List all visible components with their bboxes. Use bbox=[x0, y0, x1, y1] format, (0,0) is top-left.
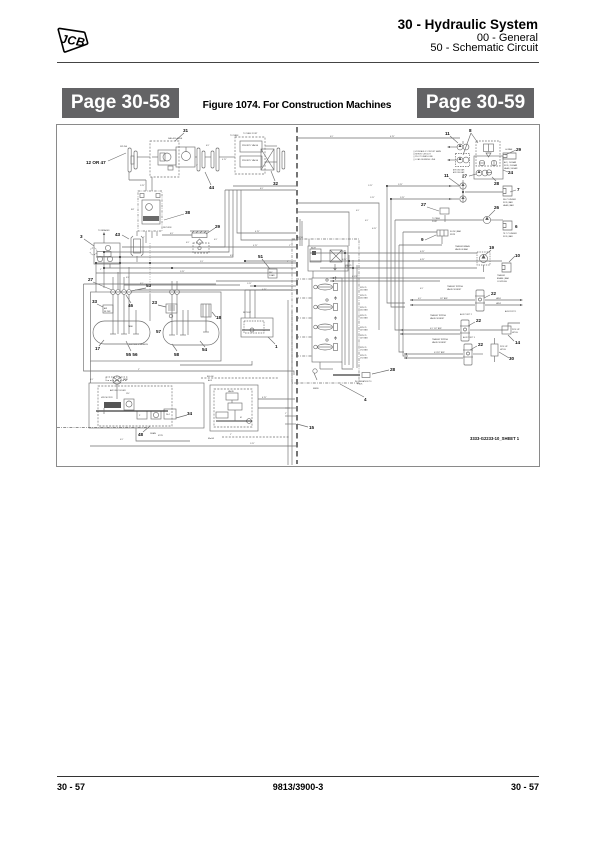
kerb drain bbox=[313, 369, 319, 390]
svg-text:27: 27 bbox=[421, 202, 427, 207]
coupling bars right of gearbox bbox=[197, 148, 219, 171]
footer left bbox=[57, 782, 85, 792]
svg-text:1/2" BSP: 1/2" BSP bbox=[440, 298, 448, 300]
svg-text:51: 51 bbox=[258, 254, 264, 259]
level gauge 23 bbox=[152, 300, 177, 318]
dotted drain line bbox=[149, 243, 151, 294]
svg-text:26: 26 bbox=[494, 205, 500, 210]
dashed box 29 right bbox=[476, 141, 522, 166]
svg-text:PRIORITY VALVE: PRIORITY VALVE bbox=[242, 159, 259, 162]
svg-text:1": 1" bbox=[196, 165, 198, 167]
svg-text:PICK UP: PICK UP bbox=[500, 346, 508, 348]
svg-text:0.5": 0.5" bbox=[330, 136, 334, 138]
label 15 bbox=[297, 424, 315, 430]
stubs left of divider lower bbox=[285, 300, 296, 465]
svg-text:3: 3 bbox=[80, 234, 83, 239]
svg-text:22: 22 bbox=[478, 342, 484, 347]
boom ram port bbox=[503, 148, 518, 170]
svg-text:1.25": 1.25" bbox=[247, 283, 252, 285]
breather 33 bbox=[92, 299, 113, 313]
svg-text:231 BAR: 231 BAR bbox=[360, 289, 368, 292]
wire to 29 bbox=[162, 233, 192, 235]
svg-text:RETURN: RETURN bbox=[163, 227, 172, 229]
svg-text:19: 19 bbox=[489, 245, 495, 250]
svg-text:0.5": 0.5" bbox=[230, 255, 234, 257]
label 51 bbox=[258, 254, 270, 269]
svg-text:COUPLING: COUPLING bbox=[497, 281, 507, 283]
svg-text:1.25": 1.25" bbox=[180, 271, 185, 273]
svg-text:ROD | BAR: ROD | BAR bbox=[503, 201, 513, 204]
solid box 24 bbox=[474, 156, 514, 186]
svg-text:SUCTION STRAINERS: SUCTION STRAINERS bbox=[129, 343, 149, 346]
svg-text:29: 29 bbox=[215, 224, 221, 229]
svg-text:AUX: AUX bbox=[208, 379, 213, 382]
svg-text:AUX PORT 1: AUX PORT 1 bbox=[505, 310, 516, 313]
svg-text:0.5": 0.5" bbox=[126, 277, 130, 279]
cross valve 32 bbox=[261, 149, 274, 170]
svg-text:TRAILER TIPPING: TRAILER TIPPING bbox=[447, 285, 464, 288]
svg-text:PORT: PORT bbox=[432, 221, 438, 223]
vent valves 27 bbox=[111, 267, 180, 294]
valve bank right bus bbox=[345, 250, 357, 368]
label 31 bbox=[175, 128, 189, 141]
svg-text:0.75": 0.75" bbox=[262, 289, 267, 291]
sheet2 right long bus bbox=[387, 186, 442, 356]
svg-text:RET FILT: RET FILT bbox=[243, 312, 252, 314]
svg-text:0.25": 0.25" bbox=[345, 266, 350, 268]
svg-text:TRAILER TIPPING: TRAILER TIPPING bbox=[430, 314, 447, 317]
svg-text:1": 1" bbox=[230, 434, 232, 436]
header titles bbox=[398, 18, 538, 32]
label 34 bbox=[176, 411, 193, 418]
svg-text:ROD | BAR: ROD | BAR bbox=[503, 235, 513, 238]
junction dots bbox=[95, 185, 464, 287]
long horizontal lines mid sheet1 bbox=[57, 247, 296, 446]
svg-text:1.25": 1.25" bbox=[250, 443, 255, 445]
label 48 bbox=[138, 426, 157, 437]
pump P1 bbox=[152, 150, 176, 170]
steering unit 29 left bbox=[190, 231, 209, 253]
svg-text:TANK: TANK bbox=[128, 325, 134, 328]
svg-text:17: 17 bbox=[95, 346, 101, 351]
svg-text:1": 1" bbox=[100, 269, 102, 271]
port 10 bbox=[497, 253, 521, 283]
JCB logo bbox=[55, 26, 91, 54]
svg-text:172 BAR: 172 BAR bbox=[360, 349, 368, 352]
svg-text:0.25": 0.25" bbox=[420, 251, 425, 253]
figure caption bbox=[150, 101, 444, 111]
cooler valve box right bbox=[210, 385, 258, 431]
svg-text:VALVE 5R BRKT: VALVE 5R BRKT bbox=[432, 341, 447, 344]
colour code legend bbox=[413, 150, 441, 161]
wire bundle from top right of sheet1 bbox=[96, 186, 296, 264]
svg-text:| | LOAD SENSING LINE: | | LOAD SENSING LINE bbox=[413, 158, 436, 161]
svg-text:0.75": 0.75" bbox=[253, 245, 258, 247]
svg-text:58: 58 bbox=[174, 352, 180, 357]
svg-text:FAN: FAN bbox=[123, 378, 127, 381]
svg-text:SAE A FLANGE: SAE A FLANGE bbox=[168, 137, 183, 140]
ram port 6 bbox=[503, 221, 518, 238]
svg-text:BRAKE | BAR: BRAKE | BAR bbox=[497, 277, 509, 280]
tee 27 bbox=[421, 202, 449, 223]
page box left bbox=[62, 88, 179, 118]
top long wire sheet2 bbox=[297, 136, 460, 138]
svg-text:RH CYLINDER: RH CYLINDER bbox=[503, 199, 516, 201]
svg-text:TO TANK: TO TANK bbox=[230, 134, 239, 137]
svg-text:0.5": 0.5" bbox=[206, 145, 210, 147]
label 43 bbox=[115, 232, 129, 239]
svg-text:0.75": 0.75" bbox=[255, 231, 260, 233]
spool section 1 bbox=[314, 277, 338, 291]
cluster2 labels 11 7 bbox=[444, 173, 520, 192]
inlet section box bbox=[308, 246, 348, 271]
svg-text:1.25": 1.25" bbox=[368, 185, 373, 187]
svg-text:HBV2: HBV2 bbox=[496, 303, 501, 305]
footer rule bbox=[57, 776, 539, 777]
svg-text:30: 30 bbox=[509, 356, 515, 361]
svg-text:1": 1" bbox=[138, 369, 140, 371]
svg-text:0.5": 0.5" bbox=[90, 379, 94, 381]
svg-text:0.5": 0.5" bbox=[430, 328, 434, 330]
label 29 bbox=[206, 224, 221, 234]
svg-text:0.25": 0.25" bbox=[372, 228, 377, 230]
wires cluster 19 bbox=[310, 251, 502, 282]
section divider dash-dot lines bbox=[296, 279, 312, 356]
svg-text:PICK UP: PICK UP bbox=[512, 329, 520, 331]
hose bracket 43 bbox=[131, 231, 143, 262]
svg-text:M: M bbox=[240, 417, 242, 419]
svg-text:0.5": 0.5" bbox=[120, 439, 124, 441]
svg-text:38: 38 bbox=[185, 210, 191, 215]
svg-text:FLT: FLT bbox=[131, 209, 135, 211]
svg-text:44: 44 bbox=[209, 185, 215, 190]
svg-text:27: 27 bbox=[462, 174, 468, 179]
svg-text:0.75": 0.75" bbox=[222, 159, 227, 161]
page box right bbox=[417, 88, 534, 118]
svg-text:HYD MOTOR: HYD MOTOR bbox=[101, 397, 113, 399]
top assembly wires bbox=[129, 134, 277, 191]
svg-text:0.5": 0.5" bbox=[260, 188, 264, 190]
svg-text:TRAILER TIPPING: TRAILER TIPPING bbox=[432, 338, 449, 341]
svg-text:10: 10 bbox=[515, 253, 521, 258]
return block right of tank bbox=[241, 286, 296, 337]
svg-text:43: 43 bbox=[115, 232, 121, 237]
svg-text:47XX: 47XX bbox=[158, 435, 164, 437]
label 46 bbox=[126, 295, 134, 308]
svg-text:P BLK: P BLK bbox=[357, 383, 363, 385]
hitch block 14 bbox=[480, 322, 521, 345]
cartridge valve 22 b bbox=[400, 314, 482, 341]
valve bank internal drop lines bbox=[297, 203, 379, 369]
footer right bbox=[511, 782, 539, 792]
svg-text:23: 23 bbox=[152, 300, 158, 305]
svg-text:0.5": 0.5" bbox=[186, 242, 190, 244]
spool sections enclosure bbox=[312, 278, 342, 362]
spool section 2 bbox=[314, 297, 338, 311]
ARV cluster labels 11 8 bbox=[445, 128, 478, 155]
schematic SVG bbox=[56, 124, 540, 467]
svg-text:PRIORITY VALVE: PRIORITY VALVE bbox=[242, 144, 259, 147]
heater pump assembly dashed bbox=[98, 386, 172, 426]
svg-text:HITCH: HITCH bbox=[500, 349, 506, 351]
pump dashed enclosure 31 bbox=[150, 141, 179, 177]
svg-text:27: 27 bbox=[88, 277, 94, 282]
svg-text:231 BAR: 231 BAR bbox=[360, 297, 368, 300]
svg-text:HEAD | BAR: HEAD | BAR bbox=[503, 204, 514, 207]
svg-text:0.5": 0.5" bbox=[170, 233, 174, 235]
svg-text:0.5": 0.5" bbox=[214, 239, 218, 241]
svg-text:0.5": 0.5" bbox=[365, 220, 369, 222]
svg-text:VALVE 5R BRKT: VALVE 5R BRKT bbox=[447, 288, 462, 291]
svg-text:1.5": 1.5" bbox=[200, 261, 204, 263]
svg-text:1": 1" bbox=[285, 413, 287, 415]
svg-text:6: 6 bbox=[515, 224, 518, 229]
svg-text:0.5": 0.5" bbox=[418, 298, 422, 300]
svg-text:207 BAR: 207 BAR bbox=[360, 337, 368, 340]
svg-text:ROD | 114 BAR: ROD | 114 BAR bbox=[504, 164, 518, 167]
svg-text:TO BRAKES: TO BRAKES bbox=[98, 229, 110, 232]
svg-text:1.25": 1.25" bbox=[370, 197, 375, 199]
svg-text:0.75": 0.75" bbox=[262, 397, 267, 399]
ARV valves cluster2 bbox=[387, 180, 466, 203]
svg-text:28: 28 bbox=[390, 367, 396, 372]
spool section 3 bbox=[314, 317, 338, 331]
label 3 bbox=[80, 234, 94, 246]
valve bank dash-dot boundary bbox=[292, 239, 359, 383]
svg-text:0.5": 0.5" bbox=[420, 288, 424, 290]
scattered small wire labels sheet1 bbox=[90, 132, 291, 445]
svg-text:MaGF: MaGF bbox=[208, 438, 215, 440]
svg-text:22: 22 bbox=[476, 318, 482, 323]
svg-text:207 BAR: 207 BAR bbox=[360, 329, 368, 332]
svg-text:0.5": 0.5" bbox=[356, 210, 360, 212]
gearbox block bbox=[176, 147, 195, 167]
svg-text:0.375": 0.375" bbox=[352, 276, 358, 278]
svg-text:12 OR 47: 12 OR 47 bbox=[86, 160, 106, 165]
svg-text:11: 11 bbox=[444, 173, 449, 178]
svg-text:TRAILER: TRAILER bbox=[497, 274, 506, 277]
outer enclosure around tank bbox=[84, 284, 295, 383]
svg-text:12V: 12V bbox=[126, 393, 130, 395]
svg-text:9: 9 bbox=[421, 237, 424, 242]
heater pump assembly outer bbox=[89, 383, 204, 428]
svg-text:0.25": 0.25" bbox=[420, 259, 425, 261]
svg-text:TRAILER BRAKE: TRAILER BRAKE bbox=[455, 245, 471, 248]
svg-text:1.25": 1.25" bbox=[400, 197, 405, 199]
svg-text:11: 11 bbox=[445, 131, 450, 136]
svg-text:7: 7 bbox=[517, 187, 520, 192]
label 12 OR 47 bbox=[86, 153, 126, 165]
label 53 bbox=[131, 283, 152, 291]
accumulator 51 bbox=[268, 269, 277, 278]
svg-text:0.5": 0.5" bbox=[434, 352, 438, 354]
footer center bbox=[150, 782, 446, 792]
restrictor 9 bbox=[421, 230, 462, 244]
svg-text:BULGF: BULGF bbox=[207, 376, 214, 378]
svg-text:48: 48 bbox=[138, 432, 144, 437]
label 32 bbox=[271, 171, 279, 186]
scattered small wire labels sheet2 bbox=[330, 136, 476, 354]
svg-text:55 56: 55 56 bbox=[126, 352, 138, 357]
cartridge valve 22 c bbox=[404, 338, 484, 365]
drain check 28 bbox=[333, 367, 396, 385]
svg-text:A/C | 114 BAR: A/C | 114 BAR bbox=[504, 161, 517, 164]
svg-text:1.25": 1.25" bbox=[140, 185, 145, 187]
tank enclosure bbox=[91, 292, 222, 361]
svg-text:DRAIN: DRAIN bbox=[150, 432, 157, 435]
valve 19 cluster bbox=[455, 245, 495, 272]
svg-text:FLOW | BAR: FLOW | BAR bbox=[450, 230, 462, 233]
svg-text:22: 22 bbox=[491, 291, 497, 296]
svg-text:33: 33 bbox=[92, 299, 98, 304]
svg-text:| | PILOT DRAIN LINE: | | PILOT DRAIN LINE bbox=[413, 155, 433, 158]
fan motor bbox=[113, 376, 128, 399]
diagram frame bbox=[56, 124, 540, 467]
svg-text:HEAD | 96 BAR: HEAD | 96 BAR bbox=[504, 167, 518, 170]
svg-text:RSTR: RSTR bbox=[450, 234, 456, 236]
wires below 38 bbox=[143, 231, 157, 243]
svg-text:231 BAR: 231 BAR bbox=[360, 317, 368, 320]
label 27 tank bbox=[88, 277, 112, 290]
svg-text:15: 15 bbox=[309, 425, 315, 430]
label 44 bbox=[205, 172, 215, 190]
svg-text:32: 32 bbox=[273, 181, 279, 186]
svg-text:| | HYDRAULIC CIRCUIT MAIN: | | HYDRAULIC CIRCUIT MAIN bbox=[413, 150, 441, 153]
svg-text:KERB: KERB bbox=[313, 388, 319, 390]
dashed valve box top bbox=[235, 137, 265, 174]
svg-text:57: 57 bbox=[156, 329, 162, 334]
svg-text:14: 14 bbox=[515, 340, 521, 345]
sheet divider dashed line bbox=[296, 127, 298, 464]
svg-text:3333-G2233-10_SHEET 1: 3333-G2233-10_SHEET 1 bbox=[470, 436, 520, 441]
cartridge valve 22 a bbox=[410, 285, 523, 313]
svg-text:AUX PORT 2: AUX PORT 2 bbox=[460, 313, 473, 316]
svg-text:VALVE 68 BAR: VALVE 68 BAR bbox=[455, 248, 468, 251]
svg-text:28: 28 bbox=[494, 181, 500, 186]
coupling bars far right bbox=[277, 148, 285, 172]
svg-text:1: 1 bbox=[275, 344, 278, 349]
svg-text:TO TANK PORT: TO TANK PORT bbox=[243, 132, 258, 135]
svg-text:AUX PORT 3: AUX PORT 3 bbox=[463, 336, 476, 339]
motor block bbox=[96, 389, 176, 419]
bottom connecting wires bbox=[136, 397, 295, 441]
label 4 bbox=[340, 384, 367, 402]
svg-text:0.75": 0.75" bbox=[390, 136, 395, 138]
solenoid 30 bbox=[491, 338, 515, 362]
anti-cav pair 27 bbox=[462, 170, 488, 178]
svg-text:1/2" BSP: 1/2" BSP bbox=[437, 352, 445, 354]
svg-text:18: 18 bbox=[216, 315, 222, 320]
tank oval right bbox=[163, 294, 219, 345]
svg-text:31: 31 bbox=[183, 128, 189, 133]
filter assembly 38 bbox=[131, 191, 162, 231]
svg-text:LH RAM: LH RAM bbox=[505, 148, 513, 151]
svg-text:HBV1: HBV1 bbox=[496, 298, 501, 300]
svg-text:1.25": 1.25" bbox=[398, 184, 403, 186]
svg-text:TILT CYLINDER: TILT CYLINDER bbox=[503, 233, 517, 235]
ARV valves 11 bbox=[447, 141, 470, 174]
svg-text:AIR: AIR bbox=[104, 307, 108, 310]
svg-text:TO TANK: TO TANK bbox=[432, 217, 441, 220]
svg-text:29: 29 bbox=[516, 147, 522, 152]
svg-text:P: P bbox=[139, 415, 141, 417]
ram port 7 bbox=[465, 186, 516, 207]
svg-text:34: 34 bbox=[187, 411, 193, 416]
svg-text:1/2" BSP: 1/2" BSP bbox=[434, 328, 442, 330]
tank oval left bbox=[93, 294, 150, 344]
svg-text:VALVE 5R BRKT: VALVE 5R BRKT bbox=[430, 317, 445, 320]
section port labels bbox=[345, 265, 368, 360]
svg-text:AVK OIL COOLER: AVK OIL COOLER bbox=[110, 389, 126, 392]
svg-text:VALVE: VALVE bbox=[228, 390, 235, 393]
coupling 12 OR 47 bbox=[128, 148, 137, 172]
svg-text:24: 24 bbox=[508, 170, 514, 175]
svg-text:4: 4 bbox=[364, 397, 367, 402]
label 38 bbox=[164, 210, 191, 220]
svg-text:1": 1" bbox=[289, 245, 291, 247]
tank labels bbox=[95, 329, 208, 357]
label 1 bbox=[268, 337, 278, 349]
svg-text:0.25": 0.25" bbox=[342, 259, 347, 261]
svg-text:8: 8 bbox=[469, 128, 472, 133]
svg-text:172 BAR: 172 BAR bbox=[360, 357, 368, 360]
svg-text:SPLINE: SPLINE bbox=[120, 146, 128, 148]
svg-text:54: 54 bbox=[202, 347, 208, 352]
check valve 26 bbox=[420, 205, 503, 224]
svg-text:1": 1" bbox=[287, 261, 289, 263]
suction strainer 18 bbox=[201, 304, 222, 320]
svg-text:231 BAR: 231 BAR bbox=[360, 309, 368, 312]
svg-text:2 BAR: 2 BAR bbox=[269, 274, 275, 277]
svg-text:0.25": 0.25" bbox=[340, 251, 345, 253]
svg-text:HITCH: HITCH bbox=[512, 332, 518, 334]
svg-text:FILTER: FILTER bbox=[104, 311, 111, 313]
brake unit 3 bbox=[90, 229, 120, 264]
spool section 4 bbox=[314, 337, 338, 351]
svg-text:24-C: 24-C bbox=[166, 414, 171, 416]
header rule bbox=[57, 62, 539, 63]
